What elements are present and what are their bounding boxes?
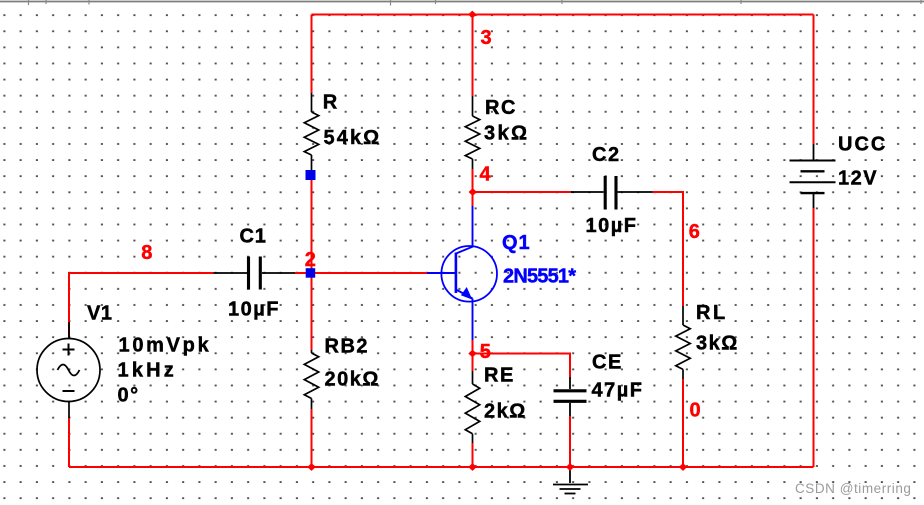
battery UCC 12V xyxy=(790,144,836,208)
capacitor C2 10µF xyxy=(571,176,653,210)
ground xyxy=(553,467,588,494)
wire node 5 red stub below Q1 xyxy=(472,340,474,372)
svg-text:RL: RL xyxy=(696,302,728,324)
wire RC bottom to node 4 xyxy=(472,169,474,207)
svg-text:3: 3 xyxy=(481,27,492,49)
wire RC branch top vertical xyxy=(472,15,474,97)
wire R branch top vertical xyxy=(311,15,313,94)
svg-text:0°: 0° xyxy=(118,385,140,407)
svg-text:5: 5 xyxy=(480,341,491,363)
resistor R 54kΩ xyxy=(304,93,318,170)
junction RL-rail xyxy=(679,463,687,471)
wire RE bottom to rail xyxy=(472,443,474,467)
junction RB2-rail xyxy=(307,463,315,471)
resistor RL 3kΩ xyxy=(676,306,690,379)
transistor Q1 2N5551 xyxy=(427,206,497,340)
wire node 5 to CE xyxy=(473,354,571,378)
capacitor C1 10µF xyxy=(214,257,296,290)
top toolbar edge xyxy=(0,1,924,3)
wire C1 to node 2 xyxy=(295,272,312,274)
junction node 3 xyxy=(468,11,476,19)
wire C2 to RL corner (node 6) xyxy=(653,192,684,306)
wire RL bottom to rail (node 0) xyxy=(682,379,684,467)
svg-text:CE: CE xyxy=(592,352,623,374)
wire UCC bottom to rail xyxy=(813,208,815,467)
resistor RB2 20kΩ xyxy=(304,350,318,409)
svg-text:6: 6 xyxy=(689,221,700,243)
wire V1 top to C1 (node 8) xyxy=(69,273,214,338)
svg-text:C1: C1 xyxy=(240,226,267,248)
svg-text:V1: V1 xyxy=(87,303,112,325)
svg-text:4: 4 xyxy=(480,164,492,186)
svg-text:20kΩ: 20kΩ xyxy=(325,369,380,391)
svg-text:C2: C2 xyxy=(592,144,621,166)
wire bottom rail xyxy=(69,466,814,468)
svg-text:1kHz: 1kHz xyxy=(118,360,178,382)
svg-text:Q1: Q1 xyxy=(502,232,531,254)
svg-text:RC: RC xyxy=(485,97,517,119)
node square below R xyxy=(306,170,316,180)
junction node 4 xyxy=(469,188,477,196)
svg-text:47µF: 47µF xyxy=(592,380,644,402)
source V1 xyxy=(37,322,100,418)
svg-text:2: 2 xyxy=(305,249,316,271)
svg-text:2N5551*: 2N5551* xyxy=(503,266,576,288)
junction RE-rail xyxy=(468,463,476,471)
svg-text:54kΩ: 54kΩ xyxy=(324,127,382,149)
wire R bottom to node 2 xyxy=(311,179,313,269)
svg-text:2kΩ: 2kΩ xyxy=(484,401,527,423)
svg-text:CSDN @timerring: CSDN @timerring xyxy=(795,481,911,496)
resistor RE 2kΩ xyxy=(465,371,479,443)
svg-text:UCC: UCC xyxy=(838,134,887,156)
resistor RC 3kΩ xyxy=(465,96,479,169)
svg-text:8: 8 xyxy=(141,242,152,264)
svg-text:12V: 12V xyxy=(838,168,878,190)
svg-text:3kΩ: 3kΩ xyxy=(696,333,739,355)
junction node 5 xyxy=(468,350,476,358)
node square node 2 xyxy=(306,268,316,278)
svg-text:R: R xyxy=(323,92,338,114)
wire V1 bottom to rail xyxy=(68,418,70,467)
svg-text:0: 0 xyxy=(690,400,701,422)
svg-text:10µF: 10µF xyxy=(586,215,638,237)
svg-text:RB2: RB2 xyxy=(325,336,370,358)
svg-text:RE: RE xyxy=(484,365,515,387)
wire top rail (node 3) xyxy=(312,14,814,16)
junction CE-rail xyxy=(566,463,574,471)
capacitor CE 47µF xyxy=(554,377,587,416)
wire node 2 down to RB2 xyxy=(311,277,313,350)
svg-text:10µF: 10µF xyxy=(228,299,280,321)
wire UCC branch vertical top xyxy=(813,15,815,145)
svg-text:3kΩ: 3kΩ xyxy=(484,123,529,145)
wire node 2 to Q1 base xyxy=(312,272,428,274)
wire CE bottom to rail xyxy=(569,416,571,467)
svg-text:10mVpk: 10mVpk xyxy=(119,335,212,357)
wire node 4 to C2 xyxy=(473,191,573,193)
wire RB2 bottom to rail xyxy=(311,409,313,467)
